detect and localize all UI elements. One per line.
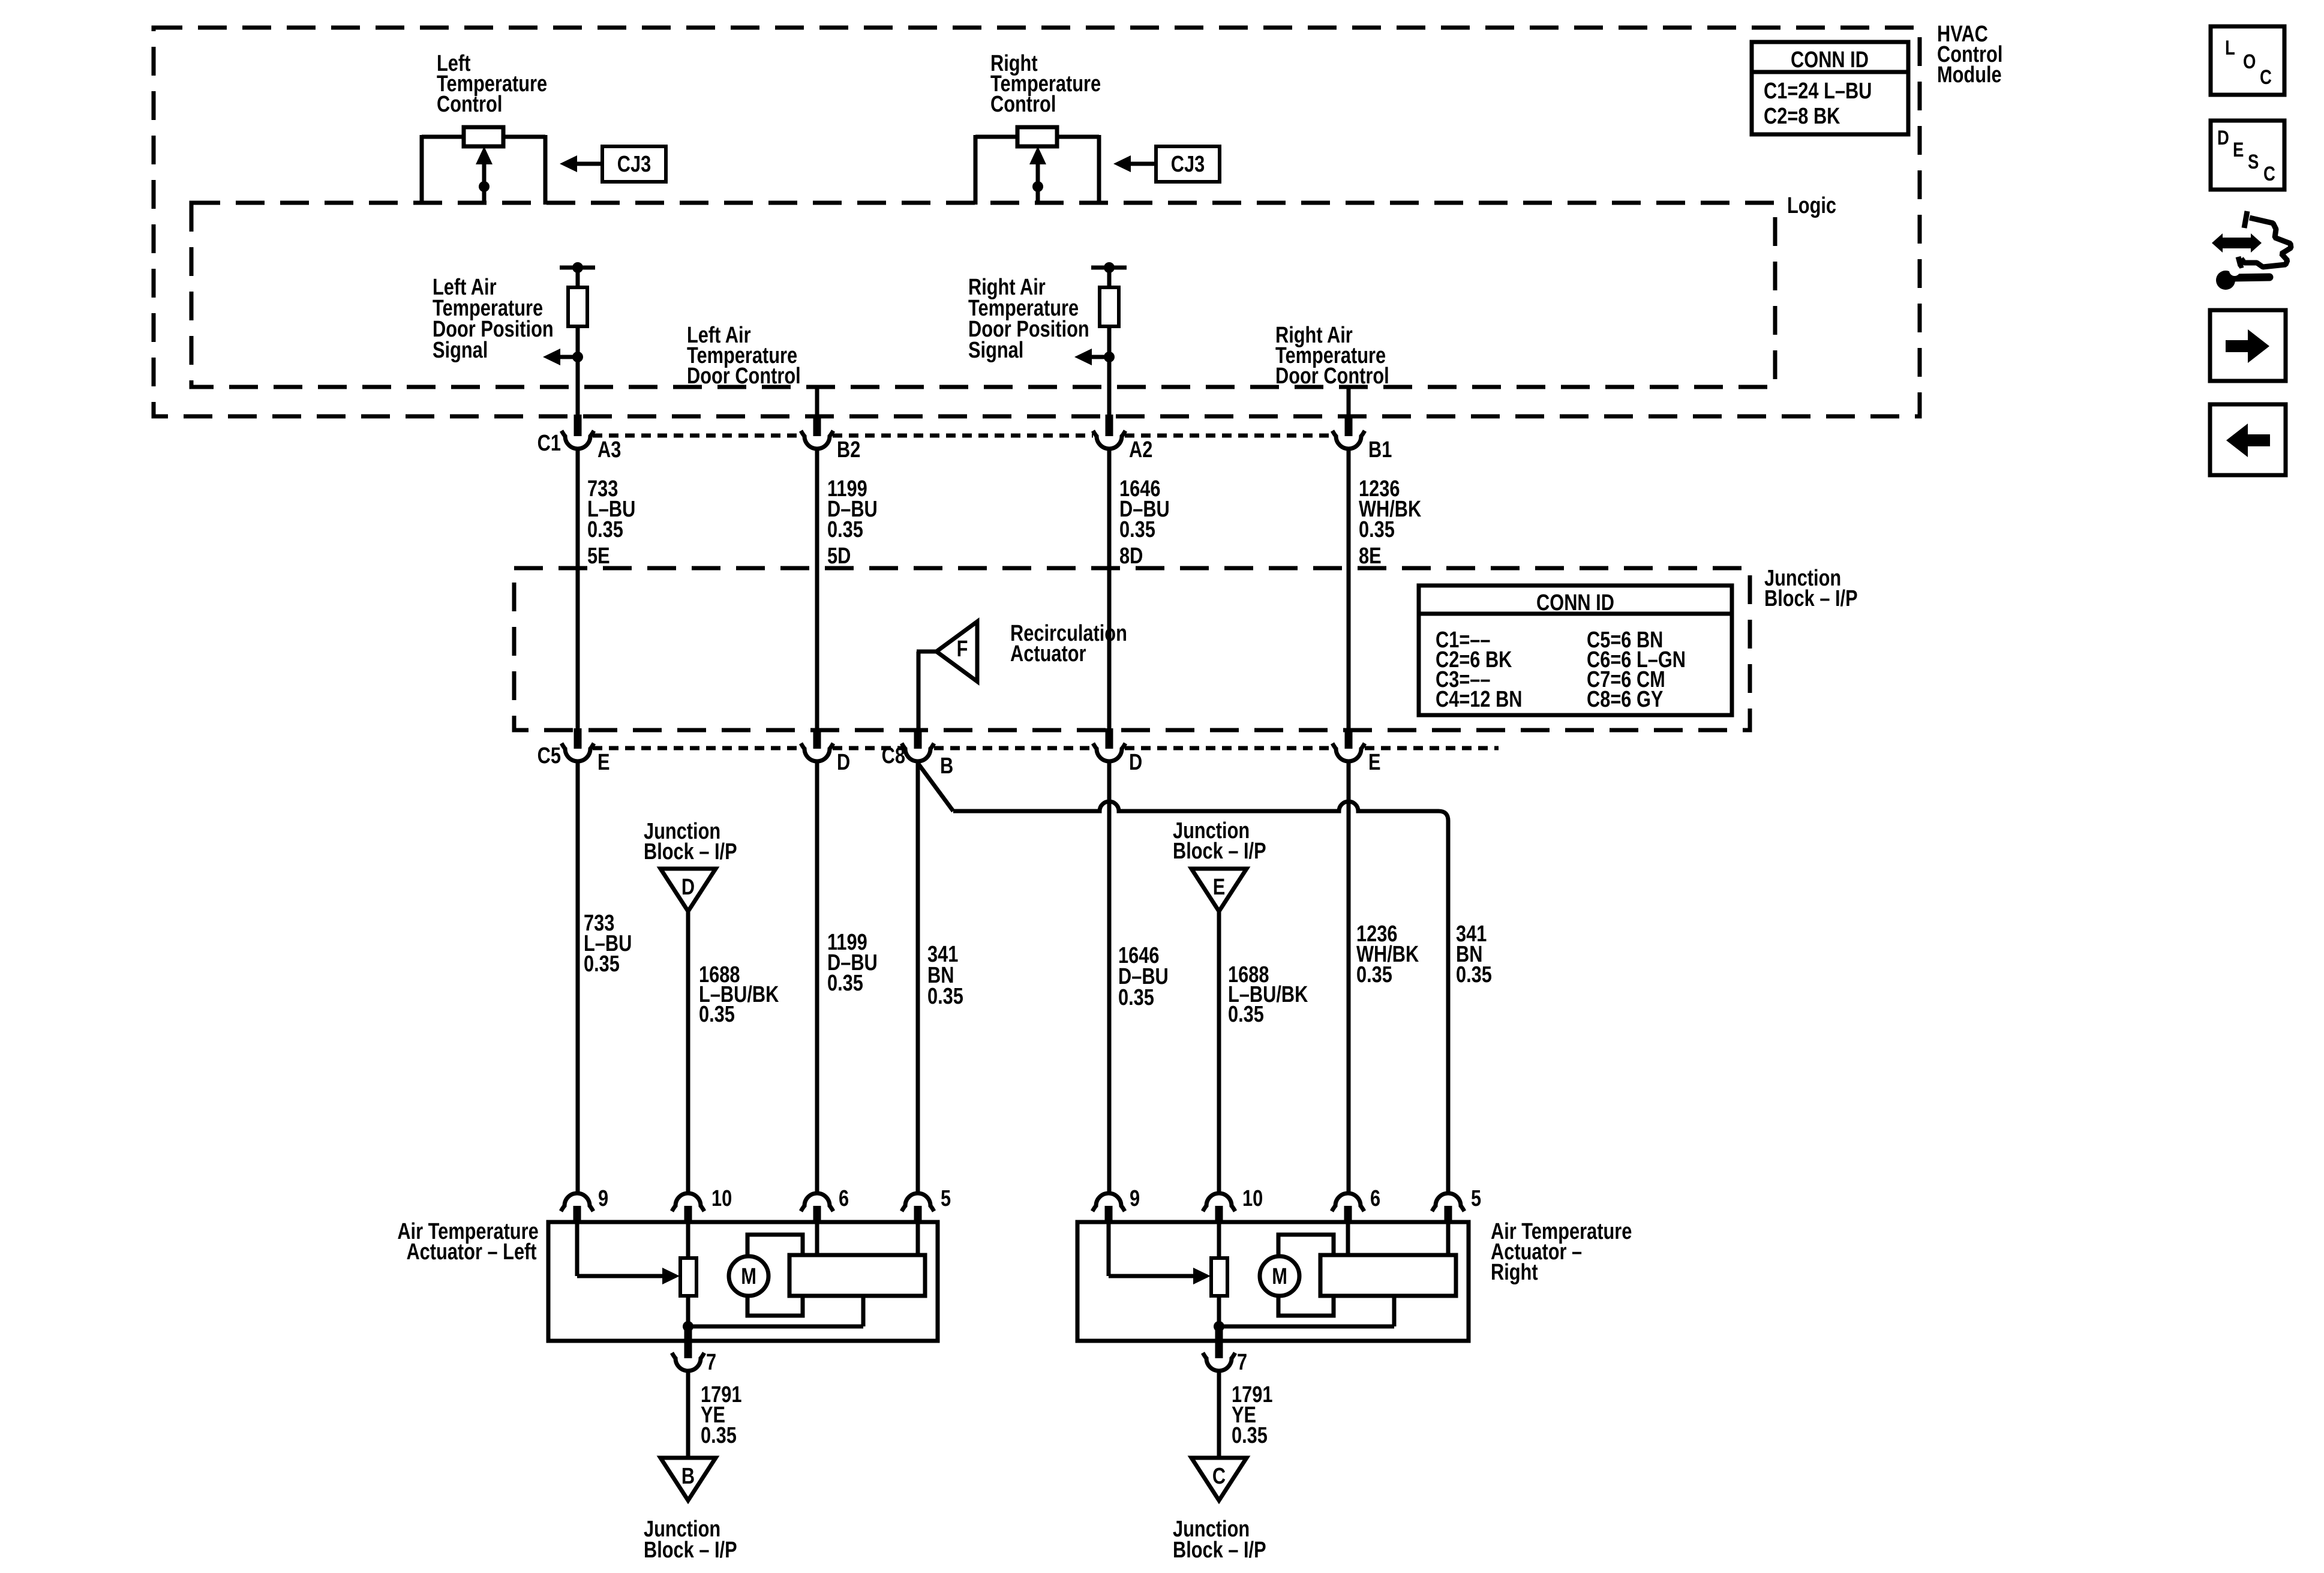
connector pin 9 (left actuator) (561, 1186, 608, 1224)
svg-text:0.35: 0.35 (1456, 962, 1492, 987)
wire 341 BN runner to right actuator (918, 763, 1492, 1193)
label Left Air Temperature Door Position Signal (433, 275, 554, 363)
junction block triangle E (1191, 869, 1247, 911)
label Junction Block I/P (above D) (644, 819, 737, 864)
svg-text:10: 10 (711, 1186, 732, 1211)
svg-text:C5: C5 (538, 743, 561, 769)
svg-text:CONN ID: CONN ID (1536, 590, 1614, 616)
wire 1688 L-BU/BK (left) (688, 911, 779, 1193)
svg-text:6: 6 (1370, 1186, 1380, 1211)
svg-text:C: C (2260, 65, 2272, 88)
svg-text:C: C (2263, 162, 2275, 185)
wire 1199 D-BU (upper) (817, 448, 878, 730)
svg-text:Block – I/P: Block – I/P (644, 839, 737, 864)
CONN ID table (junction block) (1419, 586, 1732, 715)
svg-text:5: 5 (1471, 1186, 1481, 1211)
svg-text:Signal: Signal (433, 338, 488, 363)
svg-text:C: C (1212, 1464, 1226, 1489)
gear feedback block (right actuator) (1219, 1222, 1456, 1326)
svg-text:7: 7 (1237, 1350, 1247, 1375)
label Right Air Temperature Door Position Signal (968, 275, 1089, 363)
svg-text:CJ3: CJ3 (617, 152, 651, 177)
connector pin 9 (right actuator) (1092, 1186, 1140, 1224)
feedback wiper arrow (right actuator) (1109, 1222, 1211, 1284)
svg-text:Block – I/P: Block – I/P (644, 1538, 737, 1563)
motor M (right actuator) (1260, 1256, 1299, 1296)
potentiometer Right Temperature Control (975, 127, 1099, 205)
svg-text:0.35: 0.35 (927, 984, 963, 1009)
wire 1236 WH/BK (upper) (1349, 448, 1421, 730)
svg-text:0.35: 0.35 (587, 517, 623, 542)
svg-text:0.35: 0.35 (827, 517, 863, 542)
HVAC Control Module dashed box (154, 28, 1920, 416)
signal tap arrow (left) (543, 349, 583, 365)
junction block triangle C (1191, 1458, 1247, 1500)
potentiometer Left Temperature Control (422, 127, 545, 205)
icon box DESC (2211, 121, 2284, 190)
wiper dot node (479, 181, 490, 192)
Junction Block I/P dashed box (514, 568, 1750, 730)
connector pin 5 (left actuator) (902, 1186, 951, 1224)
svg-text:0.35: 0.35 (1359, 517, 1395, 542)
Recirculation Actuator off-page triangle F (917, 621, 1127, 728)
connector pin 6 (left actuator) (801, 1186, 849, 1224)
wire Right Air Temp Door Control output (1347, 387, 1351, 416)
connector C1 pin A2 (1093, 415, 1152, 463)
connector pin 5 (right actuator) (1432, 1186, 1481, 1224)
svg-text:Block – I/P: Block – I/P (1764, 586, 1858, 611)
wire 1688 L-BU/BK (right) (1219, 911, 1308, 1193)
label Right Air Temperature Door Control (1275, 323, 1389, 389)
svg-text:D: D (2217, 126, 2229, 149)
svg-text:C2=8 BK: C2=8 BK (1764, 104, 1840, 129)
wire 733 L-BU (upper) (578, 448, 635, 730)
svg-text:L: L (2225, 36, 2235, 59)
connector pin E (right) (1332, 728, 1381, 775)
svg-text:S: S (2248, 150, 2259, 173)
svg-text:0.35: 0.35 (699, 1002, 735, 1027)
connector row C1 dotted line (593, 434, 1333, 438)
svg-text:5E: 5E (587, 544, 610, 569)
label HVAC Control Module (1937, 22, 2002, 88)
svg-text:Block – I/P: Block – I/P (1173, 1538, 1266, 1563)
label Junction Block I/P (right) (1764, 566, 1858, 611)
svg-text:Door Control: Door Control (1275, 364, 1389, 389)
connector C5 pin E (538, 728, 610, 775)
svg-text:C8: C8 (882, 743, 905, 769)
label Left Temperature Control (437, 51, 547, 117)
icon box back arrow (2210, 404, 2286, 475)
junction block triangle D (660, 869, 716, 911)
svg-text:Module: Module (1937, 62, 2002, 88)
svg-text:C4=12 BN: C4=12 BN (1436, 687, 1523, 712)
motor M (left actuator) (729, 1256, 768, 1296)
connector pin 10 (right actuator) (1203, 1186, 1263, 1224)
CJ3 callout box (right) (1113, 146, 1220, 182)
svg-text:D: D (681, 875, 695, 900)
svg-text:10: 10 (1242, 1186, 1263, 1211)
position potentiometer (right actuator) (1211, 1222, 1227, 1326)
svg-text:5D: 5D (827, 544, 851, 569)
svg-text:9: 9 (1130, 1186, 1140, 1211)
connector row 2 dotted line (593, 746, 1499, 751)
wiper dot node (right) (1032, 181, 1043, 192)
svg-text:B: B (681, 1464, 695, 1489)
svg-text:Actuator – Left: Actuator – Left (406, 1239, 537, 1265)
svg-text:C8=6 GY: C8=6 GY (1587, 687, 1663, 712)
Air Temperature Actuator - Left box (548, 1222, 938, 1341)
Air Temperature Actuator - Right box (1077, 1222, 1469, 1341)
wire 1791 YE (left) (688, 1370, 741, 1458)
wire 1646 D-BU (lower) (1109, 761, 1169, 1193)
svg-text:M: M (741, 1264, 756, 1289)
label Right Temperature Control (990, 51, 1101, 117)
connector pin 10 (left actuator) (672, 1186, 732, 1224)
node dot common (left actuator) (683, 1321, 693, 1332)
svg-text:F: F (957, 637, 968, 662)
svg-text:CJ3: CJ3 (1171, 152, 1205, 177)
svg-text:Actuator: Actuator (1010, 641, 1086, 667)
motor bracket (left actuator) (747, 1235, 803, 1316)
wire 1646 D-BU (upper) (1109, 448, 1170, 730)
connector C1 pin B2 (801, 415, 860, 463)
svg-text:0.35: 0.35 (1119, 517, 1155, 542)
svg-text:E: E (597, 750, 610, 775)
feedback wiper arrow (left actuator) (577, 1222, 680, 1284)
wire 1236 WH/BK (lower) (1349, 761, 1419, 1193)
svg-text:6: 6 (839, 1186, 849, 1211)
wire 1791 YE (right) (1219, 1370, 1272, 1458)
svg-text:0.35: 0.35 (827, 971, 863, 996)
svg-text:Control: Control (437, 92, 502, 117)
svg-text:0.35: 0.35 (584, 951, 620, 977)
Logic dashed box (191, 203, 1775, 387)
svg-text:A3: A3 (597, 437, 621, 463)
svg-text:Right: Right (1491, 1260, 1538, 1285)
icon box forward arrow (2210, 310, 2286, 381)
svg-text:B: B (940, 754, 953, 779)
label Junction Block I/P (below C) (1173, 1517, 1266, 1563)
svg-text:Control: Control (990, 92, 1056, 117)
connector C1 pin A3 (538, 415, 621, 463)
svg-text:0.35: 0.35 (1356, 962, 1392, 987)
label Junction Block I/P (above E) (1173, 818, 1266, 864)
svg-text:E: E (1213, 875, 1226, 900)
svg-text:CONN ID: CONN ID (1791, 47, 1869, 73)
svg-text:Signal: Signal (968, 338, 1023, 363)
svg-text:0.35: 0.35 (1232, 1423, 1268, 1448)
junction block triangle B (660, 1458, 716, 1500)
connector C1 pin B1 (1332, 415, 1392, 463)
label Air Temperature Actuator - Right (1491, 1219, 1632, 1285)
signal tap arrow (right) (1074, 349, 1115, 365)
connector pin 7 (left actuator) (672, 1326, 716, 1375)
gear feedback block (left actuator) (688, 1222, 925, 1326)
svg-text:9: 9 (598, 1186, 608, 1211)
label Air Temperature Actuator - Left (397, 1219, 538, 1265)
svg-text:5: 5 (941, 1186, 951, 1211)
wire 733 L-BU (lower) (578, 761, 632, 1193)
svg-text:B2: B2 (837, 437, 860, 463)
connector pin 7 (right actuator) (1203, 1326, 1247, 1375)
svg-text:C1=24 L–BU: C1=24 L–BU (1764, 79, 1872, 104)
connector pin D (right) (1093, 728, 1142, 775)
wire 1199 D-BU (lower) (817, 761, 878, 1193)
svg-text:0.35: 0.35 (701, 1423, 737, 1448)
icon adjust/wrench (2212, 211, 2291, 290)
svg-text:Block – I/P: Block – I/P (1173, 839, 1266, 864)
icon box LOC (2211, 26, 2284, 95)
svg-text:C1: C1 (538, 431, 561, 456)
svg-text:Door Control: Door Control (687, 364, 801, 389)
position potentiometer (left actuator) (680, 1222, 696, 1326)
svg-text:D: D (837, 750, 850, 775)
node dot common (right actuator) (1214, 1321, 1224, 1332)
svg-text:M: M (1272, 1264, 1287, 1289)
label Logic (1787, 193, 1836, 218)
svg-text:B1: B1 (1368, 437, 1392, 463)
connector pin D (left) (801, 728, 850, 775)
connector pin 6 (right actuator) (1332, 1186, 1380, 1224)
wire Left Air Temp Door Control output (815, 387, 819, 416)
svg-text:E: E (1368, 750, 1381, 775)
label Junction Block I/P (below B) (644, 1517, 737, 1563)
wire 341 BN (left drop) (918, 761, 963, 1193)
svg-text:A2: A2 (1129, 437, 1152, 463)
svg-text:0.35: 0.35 (1118, 985, 1154, 1010)
resistor Left Air Temp Door Position sense (560, 262, 595, 416)
CJ3 callout box (left) (560, 146, 666, 182)
resistor Right Air Temp Door Position sense (1091, 262, 1127, 416)
svg-text:8E: 8E (1359, 544, 1382, 569)
CONN ID table (HVAC module) (1752, 42, 1908, 134)
svg-text:D: D (1129, 750, 1142, 775)
label Left Air Temperature Door Control (687, 323, 801, 389)
motor bracket (right actuator) (1278, 1235, 1334, 1316)
svg-text:O: O (2243, 50, 2256, 73)
svg-text:0.35: 0.35 (1228, 1002, 1264, 1027)
svg-text:E: E (2233, 138, 2244, 161)
svg-text:Logic: Logic (1787, 193, 1836, 218)
svg-text:8D: 8D (1119, 544, 1143, 569)
svg-text:7: 7 (706, 1350, 716, 1375)
connector C8 pin B (882, 728, 954, 779)
